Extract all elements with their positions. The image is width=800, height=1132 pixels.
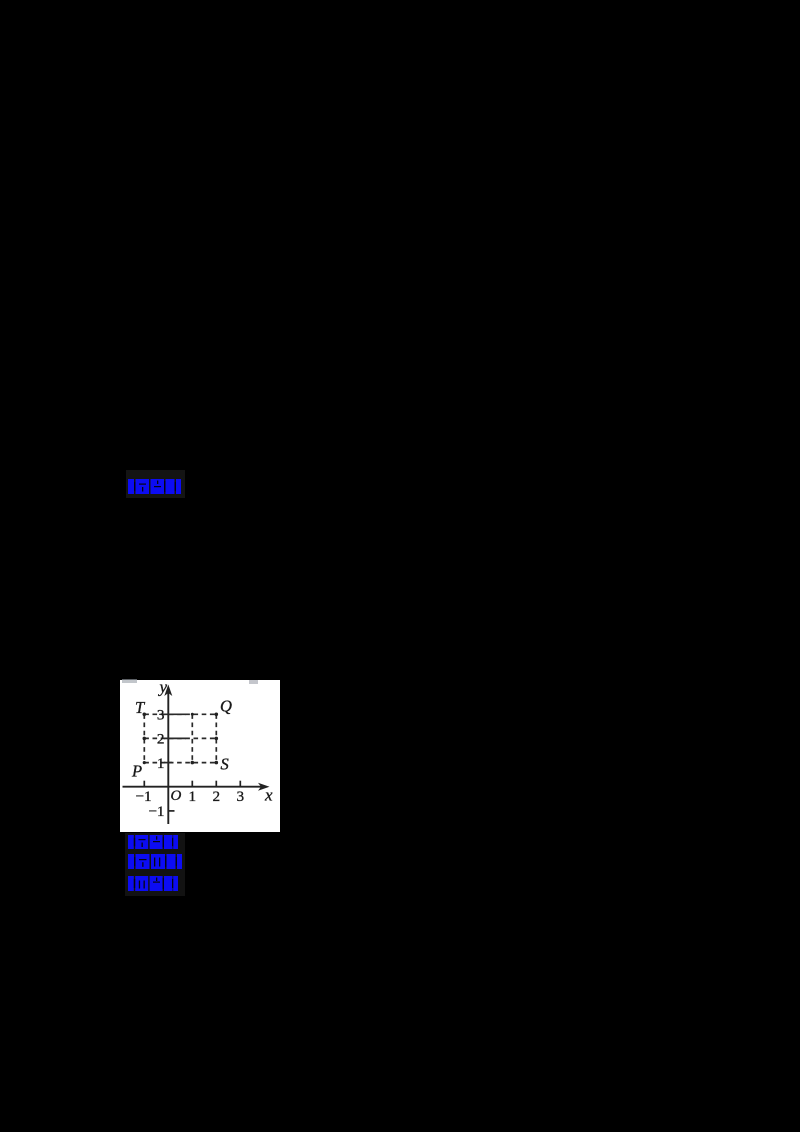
svg-text:y: y [157,680,167,697]
svg-text:1: 1 [157,755,165,772]
svg-text:2: 2 [157,731,165,748]
svg-text:x: x [264,786,273,805]
svg-text:3: 3 [237,788,245,805]
svg-text:1: 1 [189,788,197,805]
svg-text:O: O [171,788,182,804]
svg-text:P: P [131,762,142,781]
svg-text:3: 3 [157,707,165,724]
svg-text:S: S [221,755,229,774]
svg-text:Q: Q [220,697,232,716]
svg-text:−1: −1 [135,788,151,805]
svg-text:2: 2 [213,788,221,805]
svg-text:−1: −1 [148,803,164,820]
